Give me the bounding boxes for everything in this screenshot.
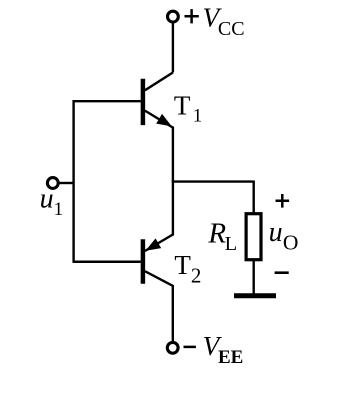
label plus output	[276, 194, 290, 208]
wire output node	[172, 180, 254, 182]
transistor T2 base bar	[141, 239, 146, 283]
svg-text:1: 1	[193, 105, 203, 126]
svg-text:O: O	[283, 230, 299, 254]
svg-text:EE: EE	[218, 347, 243, 368]
transistor T1 collector	[145, 73, 173, 91]
label uO	[269, 217, 299, 254]
label -VEE	[184, 331, 244, 368]
svg-text:1: 1	[54, 199, 64, 220]
label T2	[174, 250, 201, 287]
wire load bottom	[252, 261, 254, 294]
terminal +VCC	[168, 11, 179, 22]
label T1	[174, 91, 202, 127]
wire VCC rail	[172, 22, 174, 72]
svg-text:2: 2	[191, 263, 202, 287]
transistor T1 emitter	[145, 111, 173, 128]
ground	[234, 293, 276, 298]
transistor T2 collector	[145, 271, 173, 341]
label minus output	[275, 271, 289, 274]
wire base T2	[74, 261, 141, 263]
transistor T2 emitter	[145, 235, 173, 252]
terminal input	[47, 178, 58, 189]
transistor T1 emitter arrow	[157, 115, 171, 126]
label +VCC	[185, 3, 245, 40]
svg-text:CC: CC	[218, 18, 245, 40]
wire base T1	[74, 100, 141, 102]
label u1	[40, 184, 64, 220]
transistor T1 base bar	[141, 79, 146, 125]
wire input	[59, 182, 74, 184]
wire left rail	[72, 100, 74, 263]
terminal -VEE	[167, 342, 178, 353]
svg-text:R: R	[207, 218, 226, 250]
svg-text:L: L	[225, 233, 238, 255]
label RL	[207, 218, 237, 256]
svg-text:u: u	[269, 217, 283, 248]
transistor T2 emitter arrow	[147, 239, 161, 250]
svg-text:T: T	[174, 91, 191, 121]
wire load top	[252, 181, 254, 214]
svg-text:T: T	[174, 250, 191, 280]
wire emitter rail	[172, 127, 174, 236]
resistor RL	[246, 214, 261, 260]
svg-text:u: u	[40, 184, 54, 215]
